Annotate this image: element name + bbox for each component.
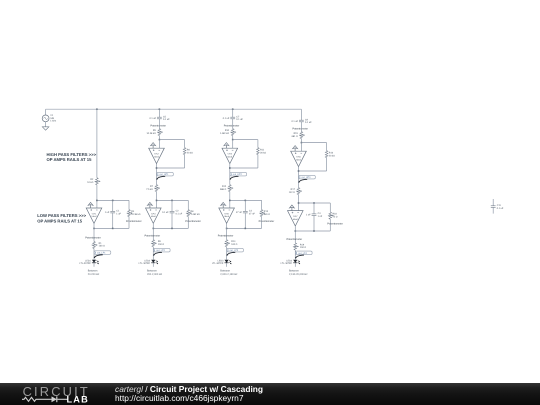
svg-text:0.1 uF: 0.1 uF xyxy=(305,121,312,124)
svg-text:Between: Between xyxy=(289,270,299,273)
svg-text:out_LP4: out_LP4 xyxy=(298,252,307,255)
svg-text:Potentiometer: Potentiometer xyxy=(145,235,161,238)
svg-text:20-200 Hz: 20-200 Hz xyxy=(88,273,100,276)
wire top supply bus xyxy=(46,108,302,110)
svg-text:Potentiometer: Potentiometer xyxy=(259,220,275,223)
svg-text:R12: R12 xyxy=(222,185,227,188)
svg-text:20 kΩ: 20 kΩ xyxy=(187,151,193,154)
LED LED3 xyxy=(212,259,231,267)
wire col1 input xyxy=(96,109,98,178)
svg-text:C9: C9 xyxy=(305,118,309,121)
svg-text:2,000-2,130 Hz: 2,000-2,130 Hz xyxy=(220,273,238,276)
potentiometer R7 xyxy=(146,185,160,192)
wire HP feedback bottom xyxy=(230,167,258,169)
svg-text:LED3: LED3 xyxy=(218,259,224,262)
resistor R6 xyxy=(183,140,193,168)
svg-text:681 Ω: 681 Ω xyxy=(292,135,298,138)
svg-text:R14: R14 xyxy=(231,240,236,243)
potentiometer R1 xyxy=(85,236,105,259)
node out_HP2 xyxy=(230,172,247,176)
svg-text:75 Ω: 75 Ω xyxy=(333,215,338,218)
svg-text:V1: V1 xyxy=(50,114,54,117)
svg-text:1.482 kΩ: 1.482 kΩ xyxy=(191,213,201,216)
wire HP feedback top xyxy=(301,142,303,144)
node label: Between 200-2,000 Hz xyxy=(147,270,163,277)
svg-text:1 uF: 1 uF xyxy=(116,212,121,215)
svg-text:0.1 uF: 0.1 uF xyxy=(176,212,183,215)
svg-text:47 nF: 47 nF xyxy=(236,211,242,214)
svg-text:out_LP2: out_LP2 xyxy=(156,249,165,252)
op-amp OA2 xyxy=(149,143,165,164)
svg-text:142 Ω: 142 Ω xyxy=(289,191,295,194)
svg-text:R2: R2 xyxy=(90,178,94,181)
svg-text:R16: R16 xyxy=(329,152,334,155)
svg-text:988 Ω: 988 Ω xyxy=(220,188,226,191)
potentiometer R13 (LP feedback) xyxy=(259,200,275,228)
potentiometer R4 (LP feedback) xyxy=(126,200,142,228)
LED LED4 xyxy=(281,259,300,267)
wire HP output xyxy=(156,164,158,185)
svg-text:LTL-307EE: LTL-307EE xyxy=(281,262,293,265)
potentiometer R12 xyxy=(220,185,233,192)
svg-text:100 Ω: 100 Ω xyxy=(99,245,105,248)
potentiometer R14 xyxy=(218,235,238,260)
wire HP output xyxy=(229,164,231,185)
potentiometer R17 xyxy=(289,188,302,195)
svg-text:Potentiometer: Potentiometer xyxy=(292,128,308,131)
potentiometer R5 xyxy=(147,119,167,140)
svg-text:Ideal: Ideal xyxy=(227,155,232,158)
potentiometer R19 xyxy=(287,238,307,260)
capacitor C7 xyxy=(223,109,244,121)
wire LP top xyxy=(97,199,129,201)
svg-text:R13: R13 xyxy=(264,210,269,213)
svg-text:Potentiometer: Potentiometer xyxy=(224,125,240,128)
svg-text:R18: R18 xyxy=(333,213,338,216)
wire LP top xyxy=(230,199,262,201)
svg-text:R1: R1 xyxy=(99,242,103,245)
svg-text:7.5 kΩ: 7.5 kΩ xyxy=(146,188,153,191)
svg-text:100 Ω: 100 Ω xyxy=(300,246,306,249)
op-amp OA4 xyxy=(222,143,238,164)
wire HP feedback bottom xyxy=(299,170,327,172)
svg-text:Potentiometer: Potentiometer xyxy=(287,238,303,241)
svg-text:R15: R15 xyxy=(294,132,299,135)
svg-text:R19: R19 xyxy=(300,243,305,246)
svg-text:0.1 uF: 0.1 uF xyxy=(223,117,230,120)
svg-text:Ideal: Ideal xyxy=(92,215,97,218)
svg-text:OA3: OA3 xyxy=(151,212,156,215)
capacitor C5 xyxy=(149,109,170,121)
svg-text:R10: R10 xyxy=(225,129,230,132)
node label: Between 20-200 Hz xyxy=(88,270,100,277)
capacitor C9 xyxy=(291,109,312,124)
svg-text:1.482 kΩ: 1.482 kΩ xyxy=(220,132,230,135)
svg-text:0.1 uF: 0.1 uF xyxy=(149,117,156,120)
svg-text:0.1 uF: 0.1 uF xyxy=(291,120,298,123)
potentiometer R10 xyxy=(220,119,240,140)
svg-text:LAB: LAB xyxy=(67,395,89,405)
svg-text:R8: R8 xyxy=(191,210,195,213)
svg-text:LTL-307EE: LTL-307EE xyxy=(79,262,91,265)
svg-text:0.1 uF: 0.1 uF xyxy=(162,211,169,214)
svg-text:OA1: OA1 xyxy=(92,212,97,215)
svg-text:0.1 uF: 0.1 uF xyxy=(497,207,504,210)
svg-text:20 kΩ: 20 kΩ xyxy=(329,154,335,157)
wire LP bottom xyxy=(153,227,188,229)
svg-text:100 Ω: 100 Ω xyxy=(231,243,237,246)
svg-text:LTL-307EE: LTL-307EE xyxy=(212,262,224,265)
svg-text:LED2: LED2 xyxy=(144,259,150,262)
svg-text:1 nF: 1 nF xyxy=(318,215,323,218)
svg-text:10 kΩ: 10 kΩ xyxy=(87,181,93,184)
svg-text:C5: C5 xyxy=(163,115,167,118)
svg-text:Potentiometer: Potentiometer xyxy=(327,223,343,226)
capacitor C2 xyxy=(162,200,183,228)
svg-text:out_HP1: out_HP1 xyxy=(160,173,170,176)
svg-text:OA5: OA5 xyxy=(224,212,229,215)
node label: Between 2,130-20,000 Hz xyxy=(289,270,308,277)
svg-text:10.38 kΩ: 10.38 kΩ xyxy=(147,132,157,135)
svg-text:out_HP3: out_HP3 xyxy=(302,176,312,179)
node junction bus col2 xyxy=(159,108,161,110)
capacitor C3 xyxy=(236,200,255,228)
svg-text:C11: C11 xyxy=(497,204,502,207)
node label: HIGH PASS FILTERS heading xyxy=(47,152,97,162)
svg-text:SIN: SIN xyxy=(50,117,54,120)
svg-text:Ideal: Ideal xyxy=(296,158,301,161)
svg-text:Potentiometer: Potentiometer xyxy=(126,220,142,223)
wire to LP stage xyxy=(298,195,300,203)
node out_LP1 xyxy=(94,251,111,255)
LED LED2 xyxy=(139,259,158,267)
svg-text:R6: R6 xyxy=(187,149,191,152)
svg-text:OA2: OA2 xyxy=(154,153,159,156)
wire HP output xyxy=(298,167,300,188)
potentiometer R18 (LP feedback) xyxy=(327,203,343,231)
node out_LP4 xyxy=(296,251,313,255)
svg-text:10.38 kΩ: 10.38 kΩ xyxy=(131,213,141,216)
op-amp OA5 xyxy=(219,202,235,223)
node junction bus col3 xyxy=(232,108,234,110)
svg-text:681 Ω: 681 Ω xyxy=(264,213,270,216)
node label: Between 2,000-2,130 Hz xyxy=(220,270,238,277)
node out_LP3 xyxy=(227,248,244,252)
capacitor C4 xyxy=(306,203,323,231)
svg-text:OA6: OA6 xyxy=(296,156,301,159)
svg-text:out_HP2: out_HP2 xyxy=(233,173,243,176)
wire HP feedback bottom xyxy=(157,167,185,169)
capacitor C11 (unconnected) xyxy=(491,199,504,214)
wire to LP stage xyxy=(229,192,231,201)
svg-text:Ideal: Ideal xyxy=(293,218,298,221)
wire LP bottom xyxy=(227,227,262,229)
CircuitLab logo xyxy=(18,383,114,405)
svg-text:OA4: OA4 xyxy=(228,153,233,156)
svg-text:R4: R4 xyxy=(131,210,135,213)
svg-text:2,130-20,000 Hz: 2,130-20,000 Hz xyxy=(289,273,308,276)
svg-text:C4: C4 xyxy=(318,212,322,215)
svg-text:R5: R5 xyxy=(153,129,157,132)
svg-text:LTL-307EE: LTL-307EE xyxy=(139,262,151,265)
wire LP output xyxy=(93,223,95,241)
ground xyxy=(42,127,49,130)
svg-text:0.1 uF: 0.1 uF xyxy=(163,118,170,121)
svg-text:C2: C2 xyxy=(176,210,180,213)
svg-text:Potentiometer: Potentiometer xyxy=(150,125,166,128)
voltage source V1 xyxy=(42,109,57,127)
svg-text:OP AMPS RAILS AT 15: OP AMPS RAILS AT 15 xyxy=(47,157,93,162)
svg-text:200-2,000 Hz: 200-2,000 Hz xyxy=(147,273,163,276)
node label: LOW PASS FILTERS heading xyxy=(37,213,86,223)
svg-text:Potentiometer: Potentiometer xyxy=(218,235,234,238)
wire HP feedback top xyxy=(232,139,234,141)
svg-text:OA7: OA7 xyxy=(293,215,298,218)
wire LP bottom xyxy=(295,230,330,232)
potentiometer R9 xyxy=(145,235,165,260)
svg-text:R9: R9 xyxy=(158,240,162,243)
potentiometer R8 (LP feedback) xyxy=(185,200,201,228)
svg-text:LED4: LED4 xyxy=(286,259,292,262)
svg-text:100 Ω: 100 Ω xyxy=(158,243,164,246)
op-amp OA7 xyxy=(288,205,304,226)
wire LP output xyxy=(152,223,154,239)
wire to LP stage xyxy=(156,192,158,201)
potentiometer R2 xyxy=(87,178,100,201)
svg-text:Ideal: Ideal xyxy=(154,155,159,158)
svg-text:1 nF: 1 nF xyxy=(306,214,311,217)
svg-text:Ideal: Ideal xyxy=(151,215,156,218)
wire LP bottom xyxy=(94,227,129,229)
svg-text:C7: C7 xyxy=(236,115,240,118)
svg-text:out_LP3: out_LP3 xyxy=(230,249,239,252)
wire HP feedback top xyxy=(159,139,161,141)
node out_LP2 xyxy=(154,248,171,252)
wire LP top xyxy=(157,199,189,201)
node junction bus col1 xyxy=(96,108,98,110)
svg-text:1 uF: 1 uF xyxy=(105,211,110,214)
op-amp OA3 xyxy=(146,202,162,223)
wire LP output xyxy=(294,226,296,243)
svg-text:C1: C1 xyxy=(116,210,120,213)
node out_HP3 xyxy=(299,175,316,179)
svg-text:Potentiometer: Potentiometer xyxy=(185,220,201,223)
LED LED1 xyxy=(79,259,98,267)
svg-text:1 kHz: 1 kHz xyxy=(50,120,57,123)
op-amp OA6 xyxy=(291,146,307,167)
resistor R16 xyxy=(325,143,335,171)
svg-text:Between: Between xyxy=(88,270,98,273)
svg-text:0.1 uF: 0.1 uF xyxy=(236,118,243,121)
svg-text:out_LP1: out_LP1 xyxy=(97,252,106,255)
svg-text:LED1: LED1 xyxy=(85,259,91,262)
svg-text:Ideal: Ideal xyxy=(224,215,229,218)
wire LP top xyxy=(299,202,331,204)
svg-text:OP AMPS RAILS AT 15: OP AMPS RAILS AT 15 xyxy=(37,218,83,223)
svg-text:47 nF: 47 nF xyxy=(249,212,255,215)
wire LP output xyxy=(226,223,228,239)
svg-text:20 kΩ: 20 kΩ xyxy=(260,151,266,154)
resistor R11 xyxy=(257,140,267,168)
node out_HP1 xyxy=(157,172,174,176)
svg-text:R17: R17 xyxy=(291,188,296,191)
svg-text:C3: C3 xyxy=(249,210,253,213)
svg-text:Potentiometer: Potentiometer xyxy=(85,236,101,239)
capacitor C1 xyxy=(105,200,122,228)
svg-text:Between: Between xyxy=(220,270,230,273)
potentiometer R15 xyxy=(292,122,309,143)
svg-text:R7: R7 xyxy=(150,185,154,188)
op-amp OA1 xyxy=(86,202,102,223)
svg-text:R11: R11 xyxy=(260,149,265,152)
svg-text:Between: Between xyxy=(147,270,157,273)
